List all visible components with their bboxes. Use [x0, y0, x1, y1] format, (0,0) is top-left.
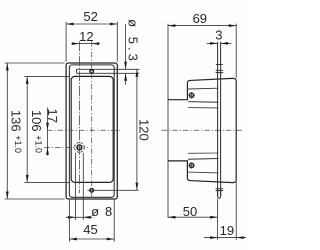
strap bottom hook: [218, 188, 221, 198]
dim 45 extension lines: [69, 200, 114, 242]
svg-text:17: 17: [45, 109, 60, 123]
dim 12 line: [72, 43, 100, 45]
top hole ring (5.3): [90, 70, 94, 74]
vertical centerline through small holes: [91, 41, 93, 196]
dashed circle around big hole: [75, 143, 85, 153]
svg-text:106 +1.0: 106 +1.0: [29, 110, 44, 153]
svg-text:45: 45: [83, 222, 97, 237]
svg-text:50: 50: [183, 204, 197, 219]
dim 136 line: [6, 63, 8, 199]
dim 52 extension lines: [66, 22, 117, 62]
dim 106 line: [26, 76, 28, 182]
dim 136 arrows: [6, 63, 9, 199]
dim 8 arrows: [68, 216, 91, 219]
dim 50 arrows: [168, 216, 218, 219]
body outline: [168, 78, 236, 182]
bracket upper lines: [188, 87, 218, 90]
dim 3 line: [207, 42, 232, 44]
dim 3 arrows: [210, 42, 228, 45]
dim 12 arrows: [72, 42, 99, 45]
dim 5.3 line: [125, 24, 127, 85]
dim 19 lens front extension: [235, 182, 237, 240]
dim 45 line: [69, 238, 114, 240]
svg-text:52: 52: [83, 9, 97, 24]
dim 52 arrows: [66, 23, 117, 26]
lens opening rectangle: [71, 76, 113, 182]
dim 106 arrows: [26, 76, 29, 182]
bracket lower lines: [188, 152, 218, 154]
dim 69 arrows: [168, 24, 236, 27]
screw bottom: [189, 163, 193, 167]
hole horizontal centerline / 17 extension: [44, 146, 88, 148]
vertical centerline through big hole: [78, 41, 80, 193]
dim 5.3 arrows: [124, 62, 127, 81]
dim 52 line: [66, 23, 117, 25]
dim 50 line: [168, 216, 218, 218]
strap bottom collar ticks: [216, 189, 224, 191]
outer flange plate: [66, 63, 117, 199]
svg-text:19: 19: [220, 223, 234, 238]
svg-text:ø 5.3: ø 5.3: [126, 19, 141, 64]
dim 106 extension lines: [24, 76, 70, 182]
bottom hole extension line to right: [87, 189, 138, 191]
svg-text:69: 69: [193, 11, 207, 26]
dim 19 line: [204, 237, 246, 239]
side view centerline: [162, 129, 242, 131]
dim 69 line: [168, 25, 236, 27]
dim 17 arrows: [46, 123, 49, 155]
svg-text:12: 12: [79, 29, 93, 44]
body back vertical / extension line: [167, 24, 169, 218]
big hole ring (8): [77, 145, 82, 150]
dim 120 arrows: [136, 69, 139, 190]
svg-text:136 +1.0: 136 +1.0: [9, 110, 24, 153]
dim 69 right extension: [235, 24, 237, 79]
strap verticals: [218, 42, 221, 196]
dim 19 arrows: [210, 236, 244, 239]
bottom hole ring (5.3): [90, 189, 94, 193]
svg-text:3: 3: [215, 28, 222, 43]
strap slot lines: [77, 69, 140, 73]
dim 45 arrows: [69, 238, 114, 241]
horizontal centerline front view: [47, 129, 121, 131]
svg-text:120: 120: [136, 119, 151, 141]
dim 17 line: [47, 108, 49, 156]
dim 8 line: [66, 216, 92, 218]
dim 120 line: [136, 69, 138, 190]
screw top: [189, 93, 193, 97]
strap collar ticks: [216, 70, 224, 72]
dim 50 right extension: [217, 199, 219, 240]
svg-text:ø 8: ø 8: [91, 204, 113, 219]
dim 136 extension lines: [5, 63, 65, 199]
strap flange tick: [216, 64, 223, 66]
dim 8 extension lines: [75, 153, 83, 220]
middle bezel rectangle: [69, 65, 114, 197]
